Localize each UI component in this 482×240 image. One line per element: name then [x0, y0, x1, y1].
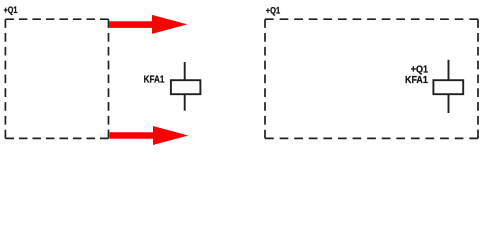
arrow (bottom, red, pointing right) [110, 126, 189, 145]
svg-text:+Q1: +Q1 [411, 64, 429, 75]
wire (bottom stub of left coil) [184, 94, 186, 111]
enclosure box +Q1 (left, dashed) [5, 19, 108, 138]
relay coil KFA1 (left) [171, 62, 201, 111]
relay coil KFA1 (right) [433, 60, 463, 113]
coil body (right) [433, 80, 463, 94]
coil body (left) [171, 80, 201, 94]
svg-text:+Q1: +Q1 [266, 6, 280, 16]
svg-text:KFA1: KFA1 [144, 74, 165, 85]
svg-text:+Q1: +Q1 [4, 5, 18, 15]
enclosure box +Q1 (right, dashed) [265, 19, 478, 138]
wire (bottom stub of right coil) [448, 94, 450, 113]
svg-text:KFA1: KFA1 [405, 75, 428, 86]
arrow (top, red, pointing right) [109, 15, 187, 34]
wire (top stub of right coil) [448, 60, 450, 80]
wire (top stub of left coil) [184, 62, 186, 80]
